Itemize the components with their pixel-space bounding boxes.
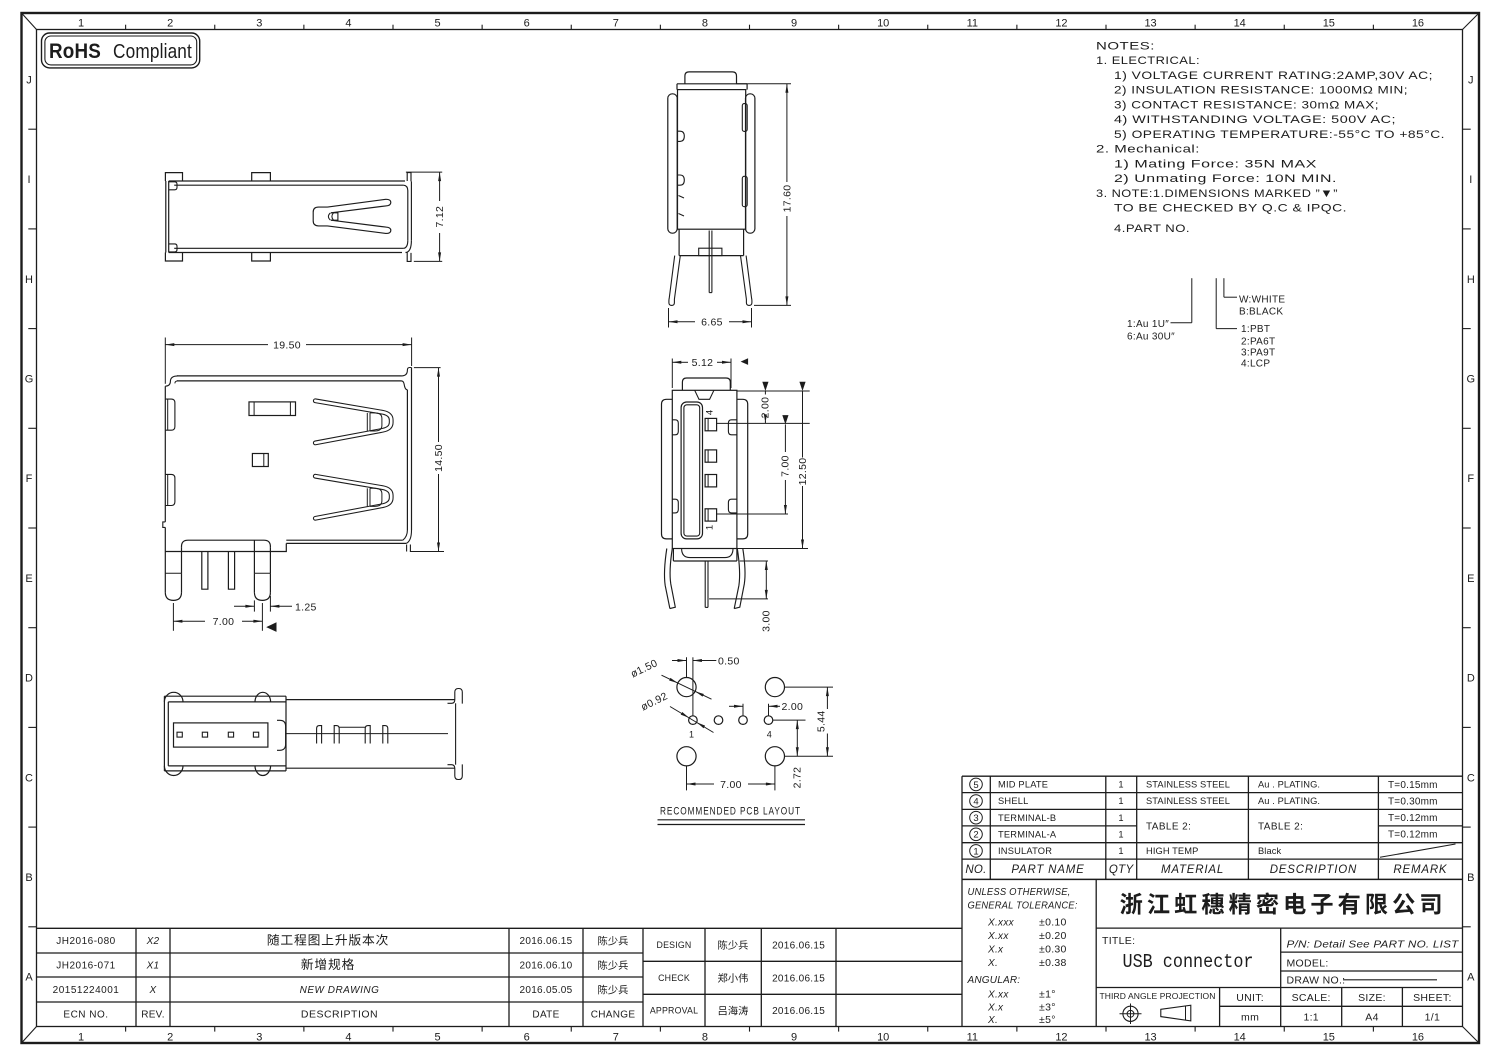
svg-text:J: J <box>1468 74 1474 86</box>
svg-text:1) VOLTAGE CURRENT RATING:2AMP: 1) VOLTAGE CURRENT RATING:2AMP,30V AC; <box>1114 70 1433 82</box>
svg-text:MID PLATE: MID PLATE <box>998 780 1048 790</box>
svg-text:X.: X. <box>987 958 998 969</box>
svg-text:14.50: 14.50 <box>433 444 445 472</box>
svg-text:TABLE 2:: TABLE 2: <box>1258 822 1303 833</box>
svg-text:C: C <box>25 772 33 784</box>
svg-text:4: 4 <box>705 410 716 415</box>
svg-text:±3°: ±3° <box>1039 1002 1056 1014</box>
svg-text:F: F <box>26 473 33 485</box>
svg-text:5) OPERATING TEMPERATURE:-55°C: 5) OPERATING TEMPERATURE:-55°C TO +85°C. <box>1114 129 1445 141</box>
svg-text:TABLE 2:: TABLE 2: <box>1146 822 1191 833</box>
svg-text:11: 11 <box>967 1032 978 1044</box>
svg-text:2.00: 2.00 <box>760 397 772 419</box>
svg-text:T=0.30mm: T=0.30mm <box>1388 796 1438 807</box>
svg-text:4: 4 <box>345 18 351 30</box>
svg-text:4.PART NO.: 4.PART NO. <box>1114 223 1190 235</box>
svg-text:NO.: NO. <box>965 864 986 876</box>
svg-text:W:WHITE: W:WHITE <box>1239 295 1285 306</box>
svg-text:7.12: 7.12 <box>434 206 446 228</box>
svg-text:10: 10 <box>877 18 889 30</box>
svg-text:APPROVAL: APPROVAL <box>650 1005 698 1015</box>
svg-text:JH2016-071: JH2016-071 <box>56 961 115 972</box>
svg-text:5: 5 <box>435 18 441 30</box>
svg-text:16: 16 <box>1412 18 1424 30</box>
svg-text:CHECK: CHECK <box>658 973 690 983</box>
svg-text:2016.06.15: 2016.06.15 <box>772 940 825 951</box>
svg-text:B:BLACK: B:BLACK <box>1239 307 1283 318</box>
svg-text:T=0.12mm: T=0.12mm <box>1388 813 1438 824</box>
svg-text:5.44: 5.44 <box>815 710 827 732</box>
svg-text:TERMINAL-A: TERMINAL-A <box>998 830 1057 840</box>
svg-text:DESCRIPTION: DESCRIPTION <box>1270 864 1357 876</box>
svg-text:DATE: DATE <box>532 1010 559 1021</box>
svg-text:±5°: ±5° <box>1039 1014 1056 1026</box>
svg-text:mm: mm <box>1241 1012 1259 1024</box>
svg-text:HIGH TEMP: HIGH TEMP <box>1146 846 1198 856</box>
svg-text:B: B <box>1467 872 1474 884</box>
svg-text:2016.06.15: 2016.06.15 <box>772 1006 825 1017</box>
svg-text:1: 1 <box>1118 830 1123 840</box>
svg-text:3: 3 <box>973 813 978 824</box>
svg-text:PART NAME: PART NAME <box>1011 864 1084 876</box>
svg-text:E: E <box>25 573 32 585</box>
svg-text:X.xxx: X.xxx <box>987 918 1015 929</box>
svg-text:1: 1 <box>78 1032 84 1044</box>
svg-text:8: 8 <box>702 1032 708 1044</box>
svg-text:NOTES:: NOTES: <box>1096 40 1155 52</box>
svg-text:CHANGE: CHANGE <box>591 1010 636 1021</box>
svg-text:SHEET:: SHEET: <box>1413 992 1452 1004</box>
svg-text:Compliant: Compliant <box>113 40 192 63</box>
svg-text:1: 1 <box>1118 796 1123 806</box>
svg-text:THIRD ANGLE PROJECTION: THIRD ANGLE PROJECTION <box>1100 991 1216 1001</box>
svg-text:RECOMMENDED PCB LAYOUT: RECOMMENDED PCB LAYOUT <box>660 806 801 818</box>
svg-text:6: 6 <box>524 1032 530 1044</box>
svg-text:X.xx: X.xx <box>987 931 1009 942</box>
svg-text:4:LCP: 4:LCP <box>1241 359 1270 370</box>
svg-text:INSULATOR: INSULATOR <box>998 846 1052 856</box>
svg-text:DRAW NO.:: DRAW NO.: <box>1287 975 1346 987</box>
svg-text:15: 15 <box>1323 1032 1335 1044</box>
svg-text:3) CONTACT RESISTANCE: 30mΩ MA: 3) CONTACT RESISTANCE: 30mΩ MAX; <box>1114 99 1379 111</box>
svg-text:1: 1 <box>78 18 84 30</box>
svg-text:STAINLESS STEEL: STAINLESS STEEL <box>1146 780 1230 790</box>
svg-text:X2: X2 <box>146 936 160 947</box>
svg-text:RoHS: RoHS <box>49 40 101 63</box>
svg-text:1) Mating Force: 35N MAX: 1) Mating Force: 35N MAX <box>1114 158 1317 170</box>
svg-text:J: J <box>26 74 32 86</box>
svg-text:QTY: QTY <box>1109 864 1135 876</box>
svg-text:2) INSULATION RESISTANCE: 1000: 2) INSULATION RESISTANCE: 1000MΩ MIN; <box>1114 85 1408 97</box>
svg-text:STAINLESS STEEL: STAINLESS STEEL <box>1146 796 1230 806</box>
svg-text:13: 13 <box>1144 18 1156 30</box>
svg-text:±1°: ±1° <box>1039 989 1056 1001</box>
svg-text:2016.06.15: 2016.06.15 <box>772 973 825 984</box>
svg-text:A: A <box>1467 972 1475 984</box>
svg-text:11: 11 <box>967 18 978 30</box>
svg-text:SCALE:: SCALE: <box>1292 992 1331 1004</box>
svg-text:Au . PLATING.: Au . PLATING. <box>1258 796 1320 806</box>
svg-text:1. ELECTRICAL:: 1. ELECTRICAL: <box>1096 55 1200 67</box>
svg-text:REV.: REV. <box>141 1010 165 1021</box>
svg-text:3: 3 <box>256 1032 262 1044</box>
svg-text:MODEL:: MODEL: <box>1287 958 1329 970</box>
svg-text:15: 15 <box>1323 18 1335 30</box>
svg-text:4: 4 <box>767 730 772 740</box>
svg-text:2.00: 2.00 <box>782 701 804 713</box>
svg-text:X.x: X.x <box>987 1003 1004 1014</box>
svg-text:1: 1 <box>973 846 978 857</box>
svg-text:±0.30: ±0.30 <box>1039 944 1067 956</box>
svg-text:6.65: 6.65 <box>701 316 723 328</box>
svg-text:9: 9 <box>791 18 797 30</box>
svg-text:7.00: 7.00 <box>780 455 792 477</box>
svg-text:X: X <box>149 985 157 996</box>
svg-text:3. NOTE:1.DIMENSIONS MARKED ”▼: 3. NOTE:1.DIMENSIONS MARKED ”▼” <box>1096 188 1338 200</box>
svg-text:10: 10 <box>877 1032 889 1044</box>
svg-text:ANGULAR:: ANGULAR: <box>967 975 1021 986</box>
svg-text:H: H <box>25 274 33 286</box>
svg-text:12: 12 <box>1055 18 1067 30</box>
svg-text:P/N: Detail See PART NO. LIST: P/N: Detail See PART NO. LIST <box>1287 940 1460 951</box>
svg-text:1:PBT: 1:PBT <box>1241 324 1270 335</box>
svg-text:F: F <box>1467 473 1474 485</box>
svg-text:9: 9 <box>791 1032 797 1044</box>
svg-text:2016.06.15: 2016.06.15 <box>519 936 572 947</box>
svg-text:GENERAL TOLERANCE:: GENERAL TOLERANCE: <box>968 901 1078 912</box>
svg-text:NEW DRAWING: NEW DRAWING <box>300 985 380 996</box>
svg-text:2:PA6T: 2:PA6T <box>1241 337 1275 348</box>
svg-text:1/1: 1/1 <box>1425 1012 1441 1024</box>
svg-text:H: H <box>1467 274 1475 286</box>
svg-text:8: 8 <box>702 18 708 30</box>
svg-text:1: 1 <box>705 525 716 530</box>
svg-text:SHELL: SHELL <box>998 796 1028 806</box>
svg-text:2. Mechanical:: 2. Mechanical: <box>1096 144 1200 156</box>
svg-text:TITLE:: TITLE: <box>1102 935 1135 947</box>
svg-text:3.00: 3.00 <box>761 610 773 632</box>
svg-text:14: 14 <box>1234 18 1246 30</box>
svg-text:1:1: 1:1 <box>1303 1012 1319 1024</box>
svg-text:6:Au 30U″: 6:Au 30U″ <box>1127 332 1175 343</box>
svg-text:T=0.15mm: T=0.15mm <box>1388 780 1438 791</box>
svg-text:1: 1 <box>689 730 694 740</box>
svg-text:DESIGN: DESIGN <box>657 940 692 950</box>
svg-text:X.xx: X.xx <box>987 990 1009 1001</box>
svg-text:2: 2 <box>167 18 173 30</box>
svg-text:5: 5 <box>973 780 978 791</box>
svg-text:D: D <box>1467 673 1475 685</box>
svg-text:1: 1 <box>1118 813 1123 823</box>
svg-text:A: A <box>25 972 33 984</box>
svg-text:USB connector: USB connector <box>1123 951 1254 973</box>
svg-text:G: G <box>25 373 34 385</box>
svg-text:Au . PLATING.: Au . PLATING. <box>1258 780 1320 790</box>
svg-text:2) Unmating Force: 10N MIN.: 2) Unmating Force: 10N MIN. <box>1114 173 1337 185</box>
svg-text:DESCRIPTION: DESCRIPTION <box>301 1009 378 1021</box>
svg-text:7.00: 7.00 <box>213 616 235 628</box>
svg-text:1.25: 1.25 <box>295 601 317 613</box>
svg-text:I: I <box>27 174 30 186</box>
svg-text:2016.06.10: 2016.06.10 <box>519 961 572 972</box>
svg-text:5: 5 <box>435 1032 441 1044</box>
svg-text:I: I <box>1469 174 1472 186</box>
svg-text:±0.10: ±0.10 <box>1039 917 1067 929</box>
svg-text:13: 13 <box>1144 1032 1156 1044</box>
svg-text:X.x: X.x <box>987 945 1004 956</box>
svg-text:2: 2 <box>973 830 978 841</box>
svg-text:UNLESS OTHERWISE,: UNLESS OTHERWISE, <box>968 887 1071 898</box>
svg-text:A4: A4 <box>1365 1012 1378 1024</box>
svg-text:1: 1 <box>1118 846 1123 856</box>
svg-text:ECN NO.: ECN NO. <box>63 1010 108 1021</box>
svg-text:REMARK: REMARK <box>1393 864 1448 876</box>
svg-text:D: D <box>25 673 33 685</box>
svg-text:4: 4 <box>973 796 978 807</box>
svg-text:14: 14 <box>1234 1032 1246 1044</box>
svg-text:7: 7 <box>613 1032 619 1044</box>
svg-text:X1: X1 <box>146 961 160 972</box>
svg-text:Black: Black <box>1258 846 1281 856</box>
svg-text:3:PA9T: 3:PA9T <box>1241 348 1275 359</box>
svg-text:SIZE:: SIZE: <box>1358 992 1386 1004</box>
svg-text:7.00: 7.00 <box>720 779 742 791</box>
svg-text:X.: X. <box>987 1015 998 1026</box>
svg-text:16: 16 <box>1412 1032 1424 1044</box>
svg-text:4) WITHSTANDING VOLTAGE: 500V: 4) WITHSTANDING VOLTAGE: 500V AC; <box>1114 114 1396 126</box>
svg-text:6: 6 <box>524 18 530 30</box>
svg-text:T=0.12mm: T=0.12mm <box>1388 830 1438 841</box>
svg-text:1: 1 <box>1118 780 1123 790</box>
svg-text:2016.05.05: 2016.05.05 <box>519 985 572 996</box>
svg-text:B: B <box>25 872 32 884</box>
svg-text:3: 3 <box>256 18 262 30</box>
svg-text:4: 4 <box>345 1032 351 1044</box>
svg-text:2.72: 2.72 <box>792 767 804 789</box>
svg-text:C: C <box>1467 772 1475 784</box>
svg-text:G: G <box>1467 373 1476 385</box>
svg-text:7: 7 <box>613 18 619 30</box>
svg-text:±0.38: ±0.38 <box>1039 957 1067 969</box>
svg-text:12: 12 <box>1055 1032 1067 1044</box>
svg-text:±0.20: ±0.20 <box>1039 930 1067 942</box>
svg-text:17.60: 17.60 <box>781 185 793 213</box>
svg-text:JH2016-080: JH2016-080 <box>56 936 115 947</box>
svg-text:5.12: 5.12 <box>692 357 714 369</box>
svg-text:E: E <box>1467 573 1474 585</box>
svg-text:2: 2 <box>167 1032 173 1044</box>
svg-text:0.50: 0.50 <box>718 655 740 667</box>
svg-text:MATERIAL: MATERIAL <box>1161 864 1224 876</box>
svg-text:TO BE CHECKED BY Q.C & IPQC.: TO BE CHECKED BY Q.C & IPQC. <box>1114 203 1347 215</box>
svg-text:12.50: 12.50 <box>797 458 809 486</box>
svg-text:19.50: 19.50 <box>273 339 301 351</box>
svg-text:TERMINAL-B: TERMINAL-B <box>998 813 1056 823</box>
svg-text:1:Au 1U″: 1:Au 1U″ <box>1127 319 1169 330</box>
svg-text:UNIT:: UNIT: <box>1236 992 1264 1004</box>
svg-text:20151224001: 20151224001 <box>53 985 120 996</box>
